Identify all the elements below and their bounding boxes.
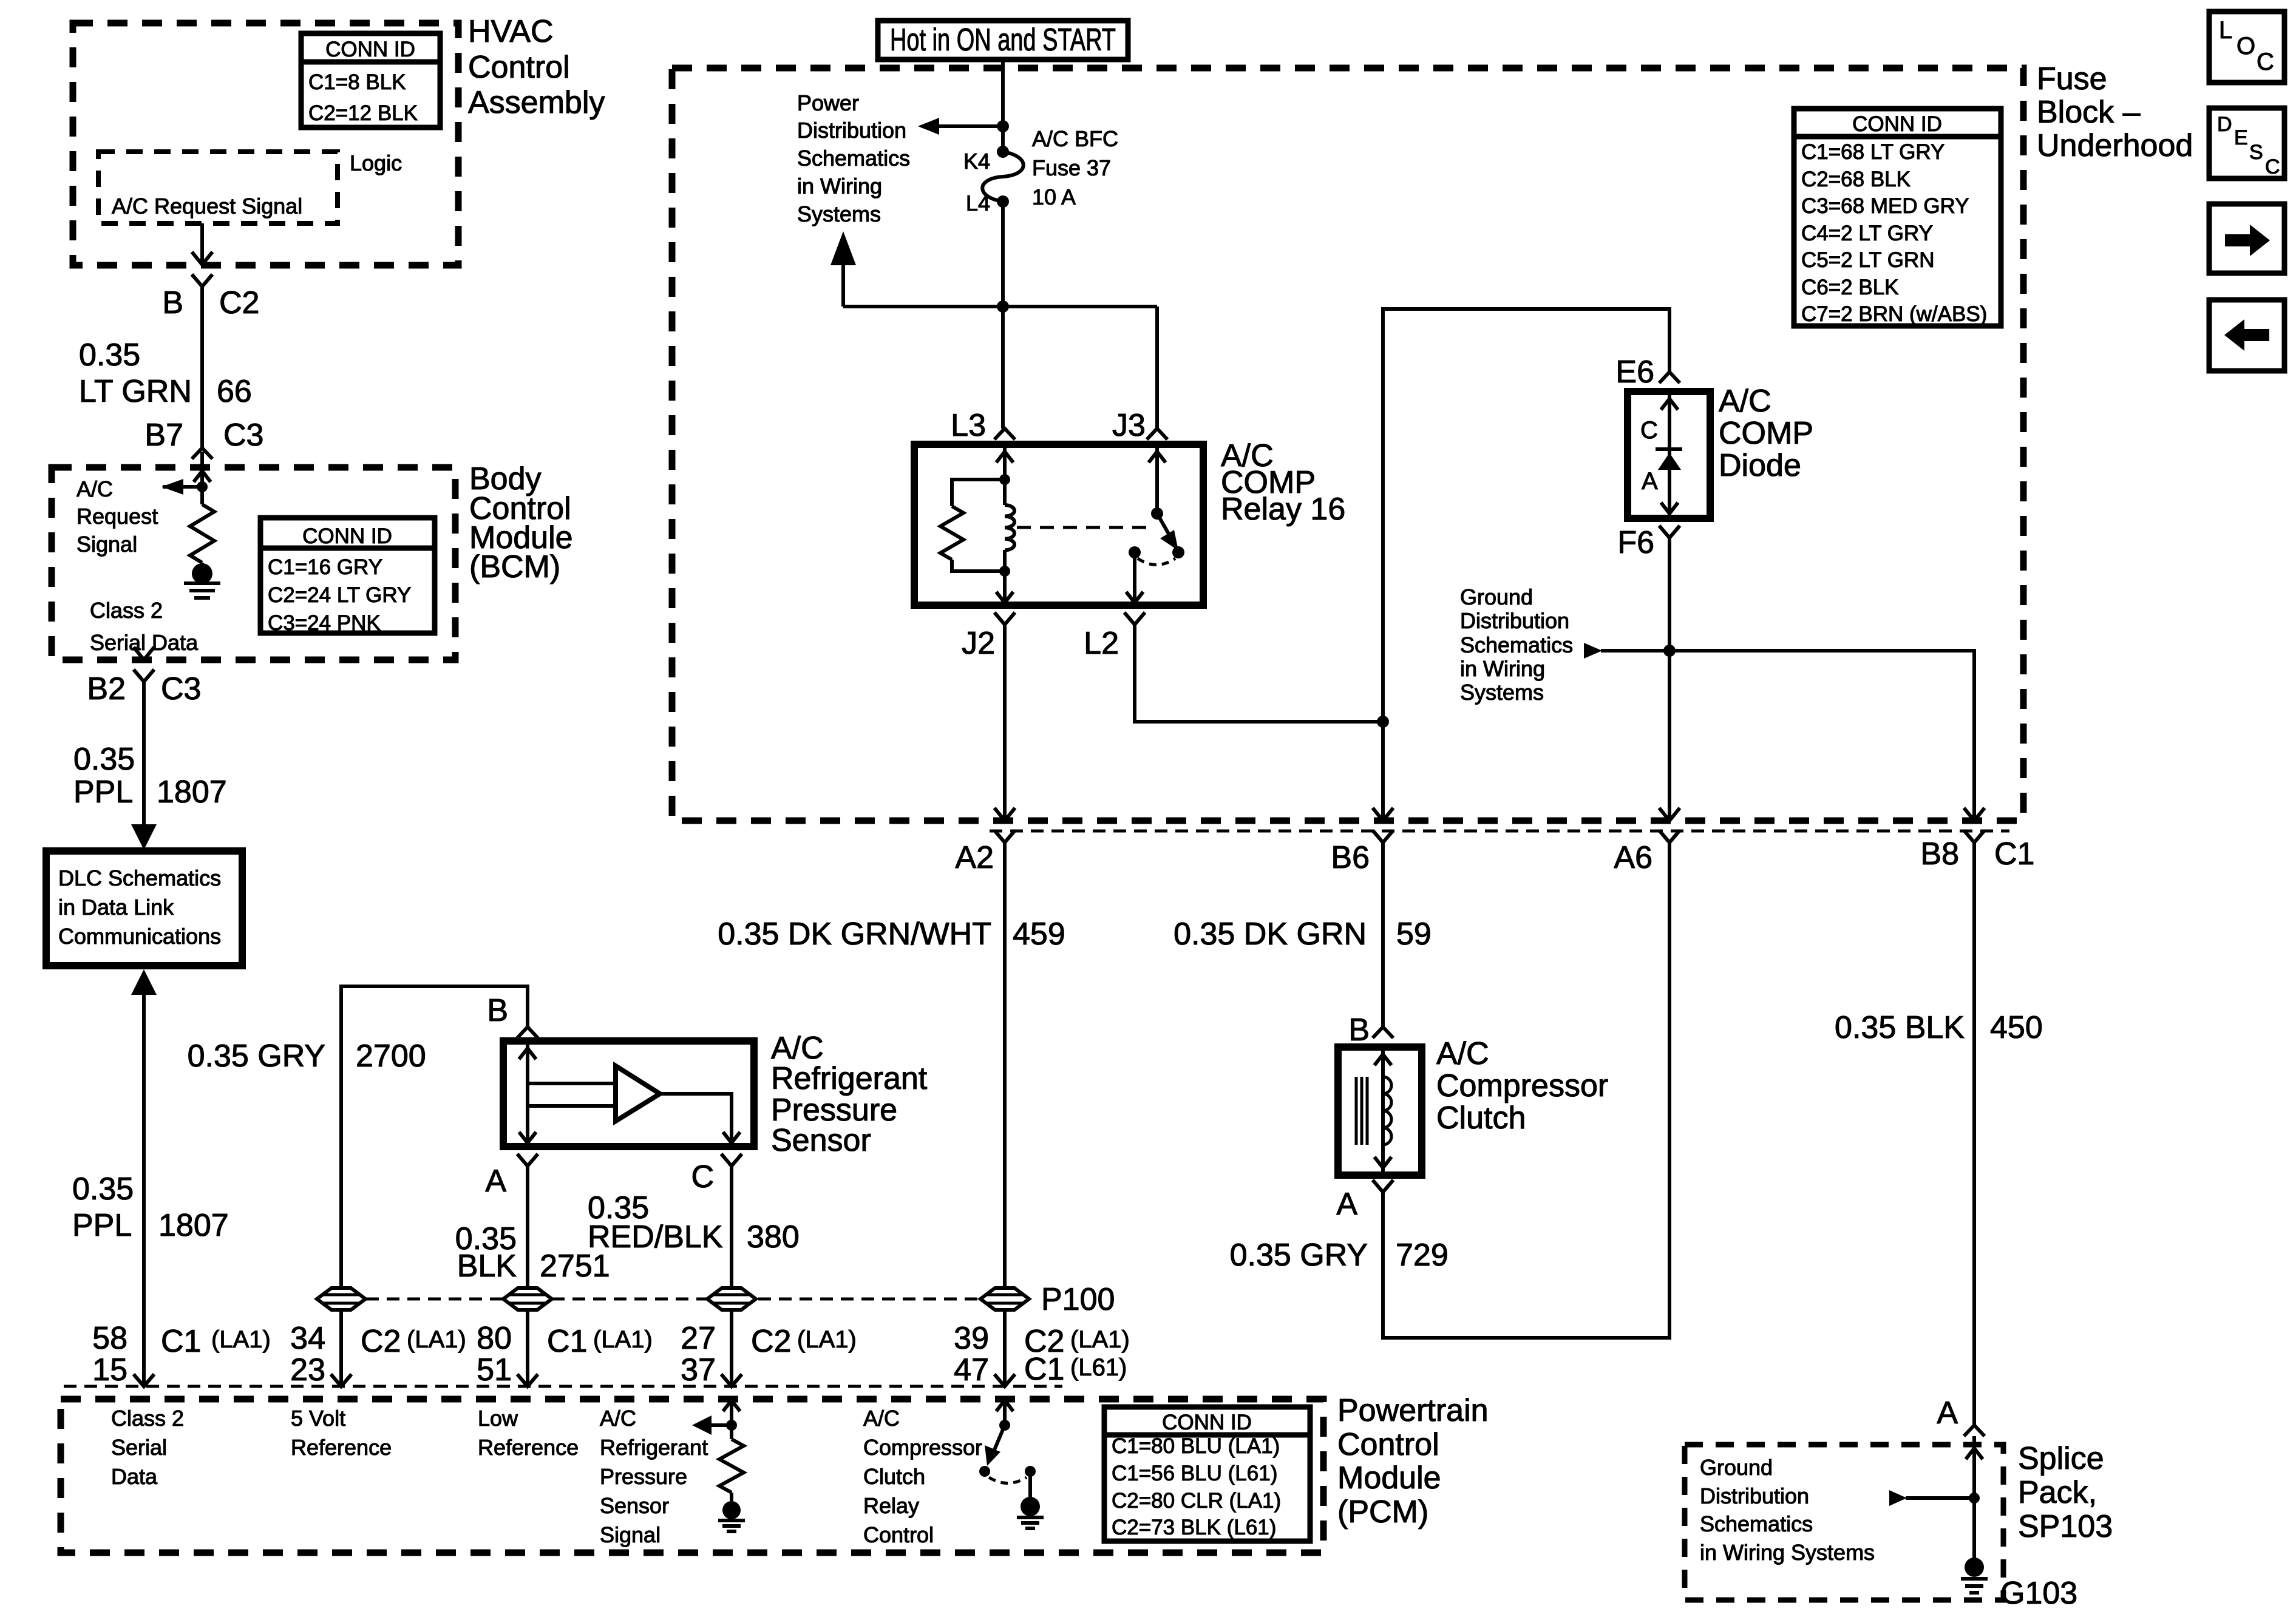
svg-text:Control: Control — [1337, 1427, 1439, 1462]
svg-text:Control: Control — [468, 50, 570, 85]
svg-text:80: 80 — [477, 1321, 512, 1356]
svg-text:C7=2 BRN (w/ABS): C7=2 BRN (w/ABS) — [1801, 302, 1987, 326]
svg-text:C1=8 BLK: C1=8 BLK — [308, 70, 406, 94]
arrow up to DLC box — [131, 969, 157, 995]
svg-text:B2: B2 — [87, 671, 126, 707]
Body Control Module box — [52, 467, 455, 660]
svg-text:Low: Low — [478, 1406, 518, 1431]
svg-text:37: 37 — [681, 1352, 716, 1388]
svg-text:Reference: Reference — [478, 1435, 579, 1460]
A/C COMP Diode box — [1628, 392, 1710, 518]
wire 5V ref corner 0.35 GRY 2700 — [341, 986, 528, 1386]
svg-text:459: 459 — [1013, 917, 1065, 952]
connector pin B7 C3 — [192, 448, 212, 459]
svg-text:(L61): (L61) — [1070, 1354, 1127, 1381]
svg-text:A/C Request Signal: A/C Request Signal — [112, 194, 302, 219]
svg-text:A: A — [1642, 468, 1658, 495]
svg-text:C2=12 BLK: C2=12 BLK — [308, 101, 418, 125]
svg-text:O: O — [2237, 33, 2255, 59]
svg-text:C2=24 LT GRY: C2=24 LT GRY — [268, 583, 411, 607]
wire junction to B8 — [1669, 651, 1974, 821]
svg-text:Fuse: Fuse — [2037, 61, 2107, 97]
clutch plates — [1355, 1077, 1358, 1145]
svg-text:S: S — [2249, 141, 2263, 164]
connector pin A2 — [994, 830, 1015, 842]
svg-text:A/C: A/C — [76, 476, 113, 501]
svg-text:Clutch: Clutch — [1436, 1100, 1526, 1136]
arrow to A/C Request Signal — [163, 485, 202, 489]
wire to power distribution — [936, 124, 1003, 128]
inline connector (5V ref) — [317, 1288, 365, 1310]
left arrow box — [2209, 300, 2284, 371]
svg-text:Compressor: Compressor — [1436, 1068, 1608, 1103]
svg-text:C2=68 BLK: C2=68 BLK — [1801, 168, 1911, 191]
svg-text:A: A — [1336, 1187, 1357, 1222]
wire HVAC to BCM 0.35 LT GRN 66 — [200, 286, 204, 448]
relay switch — [1155, 447, 1159, 514]
svg-text:2700: 2700 — [356, 1039, 426, 1074]
svg-text:C: C — [1640, 417, 1658, 444]
BCM CONN ID table — [260, 518, 435, 635]
svg-text:Distribution: Distribution — [797, 118, 906, 143]
exit arrow A2 — [994, 808, 1015, 821]
relay coil to J2 — [1003, 571, 1007, 604]
svg-text:C4=2 LT GRY: C4=2 LT GRY — [1801, 222, 1933, 245]
svg-text:A6: A6 — [1614, 840, 1652, 875]
op-amp triangle (sensor) — [616, 1066, 660, 1121]
ground (PCM clutch relay control) — [1028, 1471, 1032, 1497]
svg-text:Systems: Systems — [1460, 680, 1544, 705]
svg-text:Hot in ON and START: Hot in ON and START — [890, 22, 1116, 58]
svg-text:10 A: 10 A — [1032, 185, 1076, 209]
wire sensor C to PCM 0.35 RED/BLK 380 — [730, 1166, 733, 1386]
svg-text:C2=80 CLR (LA1): C2=80 CLR (LA1) — [1112, 1489, 1281, 1513]
svg-text:B: B — [162, 285, 183, 320]
svg-text:1807: 1807 — [158, 1208, 229, 1243]
svg-text:C2: C2 — [751, 1324, 791, 1359]
wire splice to ground — [1972, 1436, 1976, 1559]
svg-text:Power: Power — [797, 90, 859, 115]
svg-text:Clutch: Clutch — [863, 1464, 925, 1489]
svg-text:34: 34 — [290, 1321, 325, 1356]
node sensor signal — [726, 1420, 737, 1431]
svg-text:Pack,: Pack, — [2018, 1475, 2097, 1510]
svg-text:L4: L4 — [966, 191, 990, 215]
svg-text:in Wiring: in Wiring — [1460, 656, 1545, 681]
wire DLC to PCM 0.35 PPL 1807 — [142, 995, 146, 1386]
pin F6 — [1659, 526, 1680, 538]
svg-text:Powertrain: Powertrain — [1337, 1393, 1489, 1428]
svg-text:CONN ID: CONN ID — [325, 38, 415, 61]
svg-text:Serial: Serial — [111, 1435, 167, 1460]
svg-text:Relay: Relay — [863, 1493, 919, 1518]
wire junction to L3 — [1001, 307, 1005, 429]
Hot in ON and START box — [878, 21, 1128, 59]
svg-text:L2: L2 — [1084, 626, 1119, 661]
svg-text:380: 380 — [747, 1219, 800, 1255]
svg-text:(LA1): (LA1) — [797, 1326, 857, 1353]
svg-text:Logic: Logic — [350, 151, 402, 175]
svg-text:J2: J2 — [962, 626, 995, 661]
svg-text:51: 51 — [477, 1352, 512, 1388]
PCM CONN ID table — [1104, 1407, 1310, 1541]
A/C Refrigerant Pressure Sensor box — [503, 1041, 754, 1147]
pin J3 — [1147, 429, 1167, 439]
PCM internal sensor signal entry arrow — [730, 1400, 733, 1425]
inline connector P100 — [980, 1288, 1029, 1310]
svg-text:PPL: PPL — [72, 1208, 132, 1243]
svg-text:G103: G103 — [2000, 1576, 2077, 1611]
svg-text:E: E — [2234, 126, 2248, 149]
pin L3 — [994, 429, 1015, 439]
pin J2 — [994, 612, 1015, 625]
svg-text:C2: C2 — [219, 285, 259, 320]
pin 58/15 C1 — [134, 1374, 154, 1386]
svg-text:(LA1): (LA1) — [593, 1326, 653, 1353]
resistor (PCM sensor signal) — [730, 1425, 733, 1439]
relay switch to L2 — [1133, 552, 1136, 604]
pin B (sensor) — [517, 1027, 538, 1038]
A/C COMP Relay 16 box — [914, 444, 1203, 605]
svg-text:47: 47 — [954, 1352, 989, 1388]
arrow at HVAC bottom edge — [192, 252, 212, 265]
DLC Schematics box — [46, 851, 242, 966]
svg-text:in Wiring Systems: in Wiring Systems — [1700, 1540, 1875, 1565]
wire B6 to clutch 0.35 DK GRN 59 — [1381, 842, 1385, 1027]
svg-text:Request: Request — [76, 504, 158, 529]
svg-text:Schematics: Schematics — [1460, 632, 1573, 657]
svg-text:A/C: A/C — [1436, 1036, 1489, 1071]
pin A (splice pack) — [1964, 1425, 1985, 1436]
svg-text:RED/BLK: RED/BLK — [588, 1219, 723, 1255]
arrow from ground distribution — [1601, 649, 1669, 653]
svg-text:(PCM): (PCM) — [1337, 1494, 1428, 1530]
svg-text:Refrigerant: Refrigerant — [600, 1435, 708, 1460]
wire hot to fuse — [1001, 59, 1005, 152]
svg-text:Communications: Communications — [58, 924, 221, 949]
svg-text:in Wiring: in Wiring — [797, 174, 882, 198]
svg-text:DLC Schematics: DLC Schematics — [58, 866, 221, 890]
pin 80/51 C1 — [517, 1374, 538, 1386]
svg-text:(BCM): (BCM) — [469, 549, 560, 585]
svg-text:HVAC: HVAC — [468, 14, 554, 49]
svg-text:C1: C1 — [1994, 836, 2034, 872]
svg-text:Distribution: Distribution — [1460, 608, 1569, 633]
svg-text:C1: C1 — [161, 1324, 201, 1359]
node ground distribution junction — [1663, 645, 1676, 657]
svg-text:Signal: Signal — [600, 1522, 661, 1547]
svg-text:Class 2: Class 2 — [111, 1406, 184, 1431]
BCM entry arrow — [200, 452, 204, 487]
svg-text:C1: C1 — [1024, 1352, 1064, 1387]
Powertrain Control Module box — [61, 1399, 1323, 1553]
svg-text:Pressure: Pressure — [600, 1464, 687, 1489]
svg-text:Ground: Ground — [1700, 1455, 1773, 1480]
svg-text:(LA1): (LA1) — [1070, 1326, 1130, 1353]
ground G103 — [1965, 1558, 1984, 1577]
resistor (BCM A/C request pulldown) — [200, 487, 204, 504]
sensor internals — [526, 1043, 529, 1144]
Logic box — [98, 152, 338, 223]
svg-text:E6: E6 — [1615, 354, 1654, 390]
svg-text:B7: B7 — [144, 418, 183, 453]
svg-text:(LA1): (LA1) — [211, 1326, 271, 1353]
pin C (sensor) — [721, 1154, 742, 1166]
svg-text:COMP: COMP — [1719, 416, 1813, 451]
svg-text:J3: J3 — [1112, 408, 1146, 443]
svg-text:0.35 DK GRN: 0.35 DK GRN — [1173, 917, 1367, 952]
relay resistor (parallel) — [952, 480, 1005, 506]
Splice Pack dashed box — [1685, 1445, 2003, 1600]
wire clutch A to A6 0.35 GRY 729 — [1383, 842, 1669, 1338]
svg-text:Serial Data: Serial Data — [90, 630, 199, 655]
wire B6 vertical with top corner to diode — [1383, 309, 1669, 821]
svg-text:B8: B8 — [1920, 836, 1959, 872]
wire L2 to B6 node — [1135, 625, 1383, 722]
svg-text:C1=68 LT GRY: C1=68 LT GRY — [1801, 140, 1944, 164]
svg-text:CONN ID: CONN ID — [1162, 1411, 1252, 1434]
ground (PCM sensor signal) — [730, 1493, 733, 1501]
wire junction to J3 — [1155, 307, 1159, 429]
svg-text:Block –: Block – — [2037, 95, 2141, 130]
svg-text:LT GRN: LT GRN — [79, 374, 192, 409]
svg-text:58: 58 — [92, 1321, 127, 1356]
svg-text:C1=80 BLU (LA1): C1=80 BLU (LA1) — [1112, 1434, 1280, 1458]
svg-text:0.35: 0.35 — [73, 742, 135, 777]
arrow into DLC box — [131, 824, 157, 850]
svg-text:Schematics: Schematics — [797, 146, 910, 171]
svg-text:A/C: A/C — [863, 1406, 900, 1431]
svg-text:SP103: SP103 — [2018, 1509, 2113, 1544]
arrow up to power distribution schematics — [841, 261, 845, 307]
svg-text:A/C: A/C — [1719, 384, 1771, 419]
fuse block bottom connector line — [990, 830, 2009, 833]
inline harness dashed line — [366, 1298, 979, 1301]
svg-text:450: 450 — [1990, 1010, 2043, 1045]
svg-text:Relay 16: Relay 16 — [1221, 492, 1345, 527]
svg-text:C3: C3 — [223, 418, 263, 453]
A/C Compressor Clutch box — [1338, 1047, 1422, 1175]
wire J2 to A2 — [1003, 625, 1007, 821]
svg-text:C1=16 GRY: C1=16 GRY — [268, 555, 382, 579]
relay coil branch L3-J2 — [1003, 447, 1007, 480]
svg-text:Refrigerant: Refrigerant — [771, 1061, 928, 1096]
node junction A/C request — [197, 481, 208, 492]
svg-text:C2: C2 — [361, 1324, 401, 1359]
svg-text:Distribution: Distribution — [1700, 1483, 1809, 1508]
svg-text:F6: F6 — [1617, 525, 1654, 560]
svg-text:0.35 GRY: 0.35 GRY — [1230, 1238, 1368, 1273]
connector pin B C2 — [192, 274, 212, 286]
svg-text:C1=56 BLU (L61): C1=56 BLU (L61) — [1112, 1462, 1277, 1485]
node splice junction — [1969, 1493, 1980, 1503]
svg-text:Compressor: Compressor — [863, 1435, 982, 1460]
svg-text:Splice: Splice — [2018, 1441, 2104, 1476]
wire BCM to DLC 0.35 PPL 1807 — [142, 682, 146, 827]
clutch internals — [1381, 1049, 1385, 1173]
svg-text:Schematics: Schematics — [1700, 1511, 1813, 1536]
svg-text:Assembly: Assembly — [468, 85, 605, 120]
svg-text:Underhood: Underhood — [2037, 128, 2193, 163]
svg-text:C1: C1 — [547, 1324, 587, 1359]
svg-text:CONN ID: CONN ID — [1852, 112, 1942, 136]
connector pin B2 C3 — [134, 670, 154, 682]
exit arrow A6 — [1659, 808, 1680, 821]
svg-text:B6: B6 — [1331, 840, 1370, 875]
ground (BCM) — [200, 563, 204, 568]
svg-text:39: 39 — [954, 1321, 989, 1356]
svg-text:0.35 GRY: 0.35 GRY — [188, 1039, 325, 1074]
svg-text:A: A — [485, 1164, 506, 1199]
svg-text:729: 729 — [1396, 1238, 1449, 1273]
svg-text:C3=24 PNK: C3=24 PNK — [268, 611, 381, 635]
svg-text:C: C — [2257, 49, 2274, 75]
svg-text:P100: P100 — [1041, 1282, 1115, 1317]
svg-text:66: 66 — [217, 374, 252, 409]
wire A2 to PCM 0.35 DK GRN/WHT 459 — [1003, 842, 1007, 1386]
svg-text:L: L — [2219, 17, 2232, 44]
diode internals — [1668, 394, 1671, 516]
svg-text:Diode: Diode — [1719, 448, 1801, 483]
svg-text:L3: L3 — [951, 408, 986, 443]
relay coil — [1003, 480, 1007, 505]
switch (PCM clutch relay control) — [999, 1420, 1010, 1431]
svg-text:C3: C3 — [161, 671, 201, 707]
svg-text:C: C — [2265, 155, 2280, 178]
svg-text:in Data Link: in Data Link — [58, 895, 174, 920]
fuse block CONN ID table — [1794, 109, 2001, 326]
arrow left (sensor signal) — [698, 1423, 732, 1427]
svg-text:C2=73 BLK (L61): C2=73 BLK (L61) — [1112, 1516, 1276, 1539]
svg-text:A/C BFC: A/C BFC — [1032, 126, 1118, 151]
pin 34/23 C2 — [331, 1374, 352, 1386]
svg-text:5 Volt: 5 Volt — [291, 1406, 345, 1431]
wire F6 down through fuse block — [1668, 538, 1671, 821]
BCM exit arrow B2 — [134, 647, 154, 660]
inline connector (sensor signal) — [707, 1288, 756, 1310]
svg-text:Control: Control — [863, 1522, 934, 1547]
node power junction — [997, 120, 1009, 132]
Fuse Block Underhood dashed box — [672, 68, 2023, 821]
splice entry arrow — [1966, 1448, 1983, 1459]
pin A (clutch) — [1373, 1180, 1393, 1192]
exit arrow B6 — [1373, 808, 1393, 821]
svg-text:Data: Data — [111, 1464, 158, 1489]
LOC box — [2209, 12, 2284, 83]
svg-text:1807: 1807 — [157, 775, 227, 810]
svg-text:C: C — [691, 1159, 714, 1195]
svg-text:0.35 DK GRN/WHT: 0.35 DK GRN/WHT — [718, 917, 991, 952]
pin 27/37 C2 — [721, 1374, 742, 1386]
PCM internal clutch relay control entry arrow — [1003, 1400, 1007, 1425]
HVAC CONN ID table — [301, 33, 440, 127]
DESC box — [2209, 108, 2284, 178]
svg-text:BLK: BLK — [457, 1249, 517, 1284]
wire sensor A to PCM 0.35 BLK 2751 — [526, 1166, 529, 1386]
pin 39/47 C2/C1 — [994, 1374, 1015, 1386]
svg-text:Ground: Ground — [1460, 585, 1533, 609]
wire logic to HVAC edge — [200, 223, 204, 264]
inline connector (low ref) — [503, 1288, 552, 1310]
clutch coil — [1383, 1077, 1391, 1145]
node fused feed junction — [997, 300, 1009, 313]
svg-text:PPL: PPL — [73, 775, 133, 810]
svg-text:Class 2: Class 2 — [90, 598, 163, 623]
connector pin A6 — [1659, 830, 1680, 842]
svg-text:Reference: Reference — [291, 1435, 392, 1460]
svg-text:23: 23 — [290, 1352, 325, 1388]
svg-text:27: 27 — [681, 1321, 716, 1356]
svg-text:59: 59 — [1396, 917, 1432, 952]
fuse F37 A/C BFC 10A — [997, 146, 1009, 158]
svg-text:B: B — [1348, 1012, 1370, 1048]
svg-text:A: A — [1937, 1395, 1958, 1431]
svg-text:Fuse 37: Fuse 37 — [1032, 155, 1111, 180]
relay dashed actuation link — [1017, 526, 1146, 529]
HVAC Control Assembly box — [73, 23, 458, 265]
svg-text:A2: A2 — [955, 840, 994, 875]
PCM connector face dashed line — [64, 1385, 1062, 1388]
svg-text:B: B — [487, 993, 508, 1028]
wire B8 to splice 0.35 BLK 450 — [1972, 842, 1976, 1425]
svg-text:Signal: Signal — [76, 532, 137, 557]
pin B (clutch) — [1373, 1027, 1393, 1038]
svg-text:CONN ID: CONN ID — [302, 524, 392, 548]
svg-text:0.35: 0.35 — [79, 337, 140, 373]
pin L2 — [1124, 612, 1145, 625]
svg-text:D: D — [2217, 113, 2232, 136]
wire fuse to junction — [1001, 202, 1005, 307]
svg-text:Sensor: Sensor — [771, 1123, 871, 1158]
pin E6 — [1659, 372, 1680, 383]
exit arrow B8 — [1964, 808, 1985, 821]
right arrow box — [2209, 204, 2284, 273]
svg-text:C6=2 BLK: C6=2 BLK — [1801, 276, 1899, 299]
svg-text:0.35: 0.35 — [72, 1171, 134, 1207]
svg-text:A/C: A/C — [600, 1406, 636, 1431]
svg-text:15: 15 — [92, 1352, 127, 1388]
svg-text:Sensor: Sensor — [600, 1493, 669, 1518]
svg-text:K4: K4 — [963, 149, 990, 174]
svg-text:C5=2 LT GRN: C5=2 LT GRN — [1801, 248, 1935, 272]
connector pin B6 — [1373, 830, 1393, 842]
svg-text:Module: Module — [1337, 1460, 1441, 1496]
pin A (sensor) — [517, 1154, 538, 1166]
arrow from ground distribution (splice) — [1906, 1496, 1974, 1500]
svg-text:(LA1): (LA1) — [407, 1326, 466, 1353]
connector pin B8 C1 — [1964, 830, 1985, 842]
svg-text:Systems: Systems — [797, 202, 881, 226]
svg-text:0.35 BLK: 0.35 BLK — [1835, 1010, 1965, 1045]
svg-text:C3=68 MED GRY: C3=68 MED GRY — [1801, 194, 1969, 218]
